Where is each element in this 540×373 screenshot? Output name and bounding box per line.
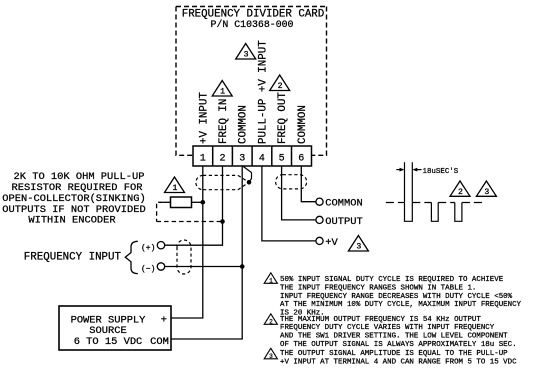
note 1 text: [280, 276, 522, 318]
svg-text:(+): (+): [141, 244, 155, 253]
junction on wire 3 at (-) input: [240, 264, 245, 269]
svg-text:OUTPUT: OUTPUT: [325, 216, 362, 228]
shield drain hook to terminal 3 wire: [243, 167, 251, 183]
svg-text:AND THE SW1 DRIVER SETTING. TH: AND THE SW1 DRIVER SETTING. THE LOW LEVE…: [280, 333, 508, 341]
svg-text:AT THE MINIMUM 10% DUTY CYCLE,: AT THE MINIMUM 10% DUTY CYCLE, MAXIMUM I…: [280, 301, 522, 309]
svg-text:2: 2: [278, 82, 283, 91]
note 2 text: [280, 316, 517, 349]
terminal block TB1: [193, 146, 312, 166]
svg-text:3: 3: [269, 353, 273, 360]
svg-text:2: 2: [219, 153, 225, 164]
frequency divider card dashed outline: [176, 7, 327, 156]
svg-text:COMMON: COMMON: [238, 105, 250, 144]
waveform pulse 3: [455, 203, 462, 222]
svg-text:FREQUENCY INPUT: FREQUENCY INPUT: [24, 251, 122, 263]
svg-text:THE INPUT FREQUENCY RANGES SHO: THE INPUT FREQUENCY RANGES SHOWN IN TABL…: [280, 284, 476, 292]
svg-text:4: 4: [259, 153, 265, 164]
svg-text:COMMON: COMMON: [325, 198, 362, 210]
svg-text:THE MAXIMUM OUTPUT FREQUENCY I: THE MAXIMUM OUTPUT FREQUENCY IS 54 KHz O…: [280, 316, 481, 324]
svg-text:6 TO 15 VDC: 6 TO 15 VDC: [74, 336, 143, 348]
node OUTPUT: [316, 216, 323, 223]
warning triangle 3 beside PULL-UP label: [236, 44, 256, 60]
svg-text:+V INPUT: +V INPUT: [198, 92, 210, 144]
note triangle 3: [264, 348, 277, 360]
svg-text:50% INPUT SIGNAL DUTY CYCLE IS: 50% INPUT SIGNAL DUTY CYCLE IS REQUIRED …: [280, 276, 504, 284]
warning triangle 2 above FREQ OUT: [270, 75, 290, 91]
junction on wire 1 at R1: [201, 200, 206, 205]
node COMMON: [316, 198, 323, 205]
svg-text:3: 3: [484, 188, 489, 197]
svg-text:+V INPUT AT TERMINAL 4 AND CAN: +V INPUT AT TERMINAL 4 AND CAN RANGE FRO…: [280, 359, 517, 367]
svg-text:FREQ IN: FREQ IN: [218, 99, 230, 144]
svg-text:5: 5: [279, 153, 285, 164]
wire 2: terminal 2 to (+) input: [165, 166, 223, 245]
waveform pulse 1: [405, 203, 413, 222]
wire 1: terminal 1 to power supply +: [171, 166, 203, 318]
dashed optional connection from R1 to wire 2 (FREQ IN): [157, 202, 223, 221]
wire 4: terminal 4 to +V node: [262, 166, 316, 241]
svg-text:1: 1: [200, 153, 206, 164]
svg-text:FREQUENCY DUTY CYCLE VARIES WI: FREQUENCY DUTY CYCLE VARIES WITH INPUT F…: [280, 324, 495, 332]
waveform pulse 2: [431, 203, 438, 222]
output cable ellipse (dashed stadium): [276, 175, 307, 189]
power supply PS1 box: [59, 306, 171, 350]
svg-text:+V: +V: [325, 237, 338, 249]
note triangle 1: [264, 273, 277, 285]
svg-text:P/N C10368-000: P/N C10368-000: [211, 19, 294, 30]
svg-text:1: 1: [172, 184, 177, 193]
svg-text:2: 2: [269, 319, 273, 326]
dimension arrows: [396, 169, 403, 171]
R1 right lead to wire 1: [192, 201, 203, 203]
wire from (-) input to wire 3: [165, 266, 243, 268]
waveform baseline (dashed): [386, 202, 484, 204]
svg-text:2: 2: [458, 188, 463, 197]
wire 5: terminal 5 to OUTPUT node: [282, 166, 316, 220]
note 3 text: [280, 350, 517, 366]
svg-text:1: 1: [220, 88, 225, 97]
svg-text:6: 6: [298, 153, 304, 164]
svg-text:WITHIN ENCODER: WITHIN ENCODER: [28, 215, 115, 227]
svg-text:COM: COM: [150, 336, 169, 348]
warning triangle 2 above waveform: [450, 181, 470, 197]
svg-text:+: +: [161, 314, 167, 326]
twisted pair ellipse on frequency input (dashed stadium, vertical): [177, 240, 191, 274]
wire 6: terminal 6 to COMMON node: [301, 166, 316, 202]
pull-up resistor note text: [2, 171, 145, 227]
svg-text:FREQ OUT: FREQ OUT: [277, 92, 289, 144]
svg-text:1: 1: [269, 278, 273, 285]
junction at shield tip: [247, 180, 252, 185]
svg-text:OF THE OUTPUT SIGNAL IS ALWAYS: OF THE OUTPUT SIGNAL IS ALWAYS APPROXIMA…: [280, 341, 517, 349]
note triangle 2: [264, 314, 277, 326]
R1 left lead: [163, 201, 171, 203]
svg-text:INPUT FREQUENCY RANGE DECREASE: INPUT FREQUENCY RANGE DECREASES WITH DUT…: [280, 293, 513, 301]
svg-text:(−): (−): [141, 265, 155, 274]
svg-text:3: 3: [239, 153, 245, 164]
warning triangle 1 near resistor: [165, 177, 185, 193]
warning triangle 3 above waveform: [476, 181, 496, 197]
warning triangle 3 near +V node: [348, 236, 368, 252]
wire 3: terminal 3 to power supply COM: [171, 166, 242, 339]
svg-text:3: 3: [356, 243, 361, 252]
brace for frequency input: [125, 241, 138, 273]
resistor R1 pull-up 2K-10K: [171, 197, 192, 208]
svg-text:COMMON: COMMON: [297, 105, 309, 144]
input cable shield ellipse (dashed, pointed tip): [196, 175, 249, 189]
node +V: [316, 237, 323, 244]
output waveform: pulse width dimension lines: [405, 162, 413, 202]
svg-text:18uSEC'S: 18uSEC'S: [423, 168, 459, 176]
warning triangle 1 above FREQ IN: [212, 81, 232, 97]
junction on wire 2 at dashed link: [220, 219, 225, 224]
svg-text:PULL-UP +V INPUT: PULL-UP +V INPUT: [257, 40, 269, 144]
svg-text:3: 3: [244, 51, 249, 60]
svg-text:THE OUTPUT SIGNAL AMPLITUDE IS: THE OUTPUT SIGNAL AMPLITUDE IS EQUAL TO …: [280, 350, 508, 358]
